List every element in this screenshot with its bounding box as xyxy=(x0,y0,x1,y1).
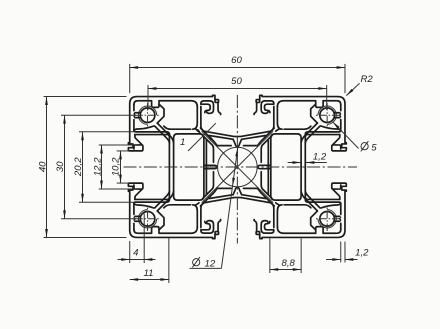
svg-text:10,2: 10,2 xyxy=(111,157,122,176)
svg-text:12: 12 xyxy=(205,258,216,269)
svg-text:20,2: 20,2 xyxy=(73,157,84,177)
svg-text:R2: R2 xyxy=(361,74,374,85)
svg-text:11: 11 xyxy=(144,268,154,279)
svg-text:30: 30 xyxy=(55,161,66,172)
svg-text:1,2: 1,2 xyxy=(313,152,327,163)
svg-text:50: 50 xyxy=(231,76,242,87)
svg-text:8,8: 8,8 xyxy=(282,258,296,269)
svg-text:1,2: 1,2 xyxy=(355,247,369,258)
svg-text:60: 60 xyxy=(231,55,242,66)
svg-text:40: 40 xyxy=(38,161,49,172)
svg-text:4: 4 xyxy=(133,248,138,259)
svg-text:1: 1 xyxy=(180,137,185,148)
svg-text:5: 5 xyxy=(371,142,377,153)
svg-text:12,2: 12,2 xyxy=(93,157,104,176)
